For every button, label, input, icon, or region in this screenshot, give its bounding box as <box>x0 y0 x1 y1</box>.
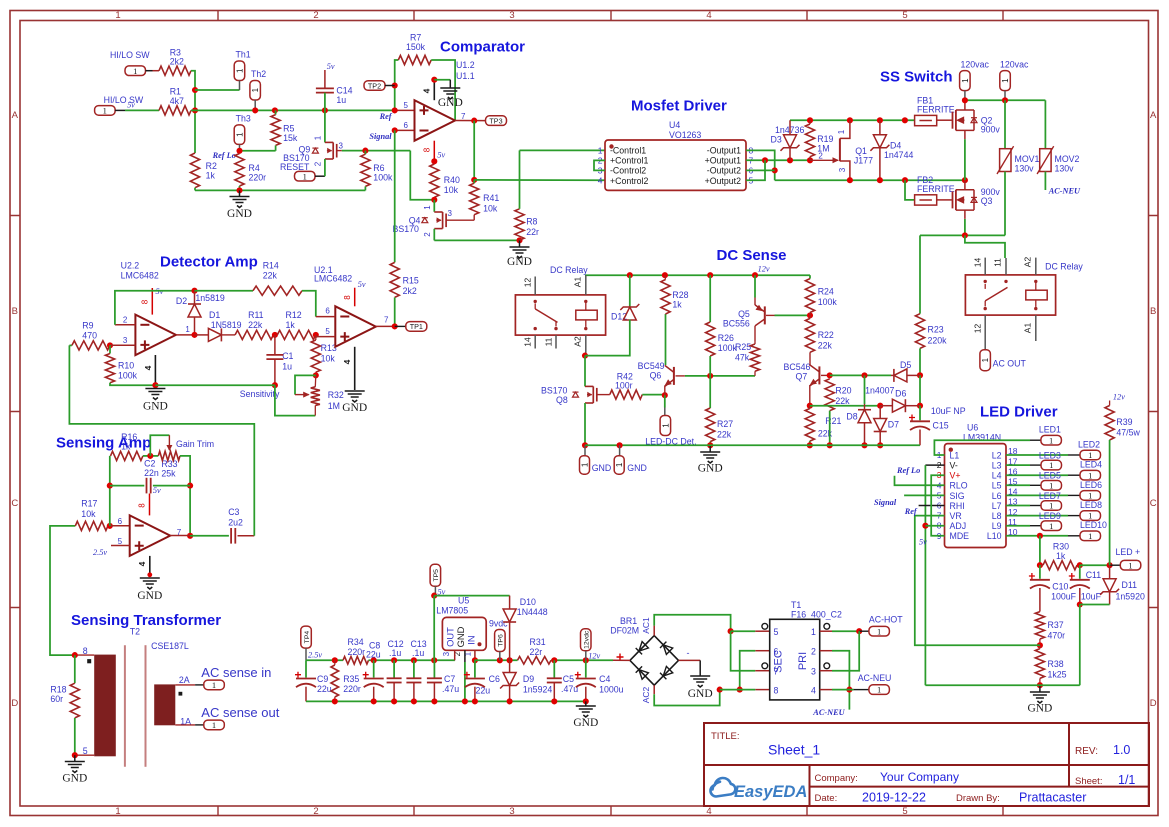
svg-text:3: 3 <box>339 142 344 151</box>
svg-text:1: 1 <box>661 423 670 428</box>
wire output TP3 <box>455 120 485 122</box>
svg-text:220k: 220k <box>928 336 948 346</box>
svg-text:R7: R7 <box>410 33 421 43</box>
svg-text:10uF NP: 10uF NP <box>931 406 966 416</box>
svg-text:12vdc: 12vdc <box>584 630 591 649</box>
svg-text:BR1: BR1 <box>620 616 637 626</box>
svg-text:R15: R15 <box>403 276 419 286</box>
testpoint TP5 <box>430 564 441 586</box>
port LED row 2 (near) <box>1006 464 1030 466</box>
svg-text:GND: GND <box>438 97 463 109</box>
svg-text:1: 1 <box>103 106 107 116</box>
svg-text:U1.2: U1.2 <box>456 60 475 70</box>
wire C11 bottom rail <box>925 684 1079 686</box>
svg-text:1u: 1u <box>282 362 292 372</box>
svg-text:14: 14 <box>973 258 983 268</box>
svg-text:TP6: TP6 <box>498 634 505 647</box>
wire supply ground rail <box>306 700 586 702</box>
svg-text:9vdc: 9vdc <box>489 619 508 629</box>
wire 12v rail <box>585 274 810 276</box>
svg-text:120vac: 120vac <box>961 60 990 70</box>
op-amp U3 pin4 ground <box>149 556 151 575</box>
svg-text:GND: GND <box>137 590 162 602</box>
svg-text:R37: R37 <box>1048 620 1064 630</box>
wire Q7 base rail right <box>830 374 891 376</box>
node R1/R3 <box>192 87 198 93</box>
svg-text:R28: R28 <box>672 290 688 300</box>
T2 core lines <box>124 645 126 767</box>
svg-text:2: 2 <box>811 647 816 657</box>
svg-text:7: 7 <box>774 667 779 677</box>
svg-text:220r: 220r <box>348 647 366 657</box>
wire U2.2 output node <box>176 334 195 336</box>
svg-text:1n5920: 1n5920 <box>1116 592 1145 602</box>
svg-text:SIG: SIG <box>950 491 965 501</box>
svg-text:REV:: REV: <box>1075 746 1098 757</box>
svg-text:1N4448: 1N4448 <box>517 607 548 617</box>
svg-text:GND: GND <box>698 463 723 475</box>
svg-text:1k: 1k <box>286 320 296 330</box>
svg-text:Ref Lo: Ref Lo <box>212 151 236 160</box>
svg-text:5v: 5v <box>153 486 161 495</box>
svg-text:A1: A1 <box>1023 323 1033 334</box>
svg-text:470: 470 <box>82 331 97 341</box>
svg-text:R8: R8 <box>526 217 537 227</box>
svg-text:V-: V- <box>950 461 958 471</box>
svg-text:3: 3 <box>448 209 453 218</box>
svg-text:Date:: Date: <box>815 793 838 804</box>
svg-text:R9: R9 <box>82 321 93 331</box>
port LED-DC Det <box>660 416 671 436</box>
svg-text:1: 1 <box>133 66 137 76</box>
U5 pin IN lead <box>474 650 476 660</box>
svg-text:R14: R14 <box>263 261 279 271</box>
svg-text:4: 4 <box>706 806 711 817</box>
svg-text:3: 3 <box>509 10 514 21</box>
svg-text:MOV1: MOV1 <box>1015 154 1040 164</box>
svg-text:Q5: Q5 <box>738 309 750 319</box>
wire R3 to node <box>191 71 195 153</box>
svg-text:AC1: AC1 <box>641 617 651 634</box>
svg-text:220r: 220r <box>249 173 267 183</box>
svg-text:8: 8 <box>138 503 147 508</box>
T2 primary winding <box>94 655 116 757</box>
svg-text:1000u: 1000u <box>599 685 624 695</box>
op-amp U2.1 pin4 ground <box>354 347 356 390</box>
svg-text:C10: C10 <box>1052 582 1068 592</box>
svg-text:+Output1: +Output1 <box>705 156 742 166</box>
svg-text:10k: 10k <box>483 204 498 214</box>
svg-text:GND: GND <box>592 463 612 473</box>
svg-text:Signal: Signal <box>369 132 392 141</box>
testpoint TP6 <box>495 630 506 652</box>
svg-text:1: 1 <box>1001 78 1010 83</box>
svg-text:D: D <box>11 698 18 709</box>
ground GND (R27) <box>709 445 711 452</box>
wire bridge - to GND <box>679 659 701 661</box>
svg-text:R25: R25 <box>735 342 751 352</box>
svg-text:100k: 100k <box>118 371 138 381</box>
svg-text:22k: 22k <box>263 271 278 281</box>
wire T1 pin7 <box>731 631 756 671</box>
svg-text:C15: C15 <box>933 421 949 431</box>
svg-text:2.5v: 2.5v <box>308 651 322 660</box>
svg-text:R26: R26 <box>718 333 734 343</box>
ground GND (R2/R4) <box>239 190 241 196</box>
svg-text:A2: A2 <box>1023 257 1033 268</box>
svg-text:1: 1 <box>1049 460 1053 470</box>
wire C3 up to detector <box>238 535 255 537</box>
svg-text:D8: D8 <box>846 412 857 422</box>
svg-text:Prattacaster: Prattacaster <box>1019 791 1086 805</box>
svg-text:AC-NEU: AC-NEU <box>812 708 845 717</box>
svg-text:4: 4 <box>598 176 603 186</box>
svg-text:R22: R22 <box>818 330 834 340</box>
wire Q8 source <box>584 403 586 445</box>
wire T1 pin1 AC-HOT <box>820 630 832 632</box>
svg-text:DC Sense: DC Sense <box>717 247 787 264</box>
svg-text:R35: R35 <box>343 674 359 684</box>
wire 120vac rail <box>965 99 1046 101</box>
wire Q3 source to rail2 <box>964 219 966 235</box>
svg-text:Mosfet Driver: Mosfet Driver <box>631 98 727 115</box>
svg-text:22k: 22k <box>717 430 732 440</box>
svg-text:U4: U4 <box>669 120 680 130</box>
svg-text:22r: 22r <box>526 227 539 237</box>
svg-text:4: 4 <box>422 88 432 93</box>
svg-text:2u2: 2u2 <box>228 518 243 528</box>
op-amp U2.2 pin8 5v <box>151 288 153 315</box>
svg-text:1: 1 <box>236 132 245 137</box>
EasyEDA logo <box>710 778 735 797</box>
svg-text:1: 1 <box>981 357 990 362</box>
svg-text:C2: C2 <box>144 459 155 469</box>
wire Q6 collector <box>665 314 667 365</box>
svg-text:1: 1 <box>1049 501 1053 511</box>
svg-text:4: 4 <box>706 10 711 21</box>
svg-text:IN: IN <box>466 635 477 644</box>
svg-text:L9: L9 <box>992 521 1002 531</box>
svg-text:AC-HOT: AC-HOT <box>869 615 903 625</box>
wire U6 VR divider <box>915 515 945 517</box>
svg-text:GND: GND <box>342 402 367 414</box>
svg-text:HI/LO SW: HI/LO SW <box>110 50 150 60</box>
svg-text:1: 1 <box>1088 531 1092 541</box>
wire ground rail <box>195 189 365 191</box>
port RESET <box>295 171 316 181</box>
svg-text:R19: R19 <box>817 134 833 144</box>
node R16/R33 <box>143 455 158 457</box>
svg-text:2: 2 <box>123 316 128 325</box>
svg-text:7: 7 <box>461 112 466 121</box>
svg-text:1: 1 <box>185 325 190 334</box>
wire gain trim loop <box>150 435 169 456</box>
svg-text:R4: R4 <box>249 163 260 173</box>
svg-text:C5: C5 <box>563 674 574 684</box>
svg-text:GND: GND <box>507 256 532 268</box>
svg-text:L5: L5 <box>992 481 1002 491</box>
svg-text:130v: 130v <box>1015 164 1035 174</box>
svg-text:22u: 22u <box>317 684 332 694</box>
wire U2.2 -in feedback <box>115 324 135 326</box>
svg-text:C1: C1 <box>282 351 293 361</box>
svg-text:A: A <box>1150 110 1157 121</box>
svg-text:12v: 12v <box>588 652 600 661</box>
svg-text:Gain Trim: Gain Trim <box>176 439 214 449</box>
svg-text:R2: R2 <box>206 161 217 171</box>
op-amp U3 sensing <box>110 525 130 527</box>
svg-text:100k: 100k <box>818 297 838 307</box>
svg-text:1: 1 <box>251 87 260 92</box>
wire T1 pin2 <box>820 650 832 652</box>
svg-text:AC2: AC2 <box>641 686 651 703</box>
svg-text:C: C <box>1150 498 1157 509</box>
svg-text:LED5: LED5 <box>1039 471 1061 481</box>
svg-text:-Output2: -Output2 <box>707 166 741 176</box>
svg-text:1n5924: 1n5924 <box>523 685 552 695</box>
svg-text:5: 5 <box>902 10 907 21</box>
svg-text:Q7: Q7 <box>796 372 808 382</box>
svg-text:FERRITE: FERRITE <box>917 184 955 194</box>
wire snubber bottom rail <box>775 179 965 181</box>
svg-text:R32: R32 <box>328 390 344 400</box>
svg-text:L3: L3 <box>992 461 1002 471</box>
svg-text:100r: 100r <box>615 381 633 391</box>
wire L10 to R30 <box>1037 533 1043 539</box>
svg-text:3: 3 <box>509 806 514 817</box>
svg-text:GND: GND <box>62 773 87 785</box>
svg-text:22n: 22n <box>144 468 159 478</box>
svg-text:A1: A1 <box>573 277 583 288</box>
svg-text:Ref Lo: Ref Lo <box>896 466 920 475</box>
svg-text:5: 5 <box>325 327 330 336</box>
svg-text:LED6: LED6 <box>1080 480 1102 490</box>
svg-text:12: 12 <box>973 324 983 334</box>
svg-text:2k2: 2k2 <box>403 286 417 296</box>
svg-text:1: 1 <box>961 78 970 83</box>
svg-text:3: 3 <box>442 651 451 656</box>
svg-text:R17: R17 <box>81 499 97 509</box>
port LED row 4 (near) <box>1006 484 1030 486</box>
svg-text:TP2: TP2 <box>368 81 381 90</box>
svg-text:2: 2 <box>313 806 318 817</box>
svg-text:1.0: 1.0 <box>1113 743 1130 757</box>
svg-text:D2: D2 <box>176 296 187 306</box>
svg-text:R41: R41 <box>483 193 499 203</box>
wire output to C3 <box>170 535 190 537</box>
svg-text:11: 11 <box>543 337 553 346</box>
svg-text:1: 1 <box>615 462 624 467</box>
svg-text:L6: L6 <box>992 491 1002 501</box>
testpoint TP4 <box>301 626 312 648</box>
wire R33 to output <box>180 456 190 536</box>
svg-text:R1: R1 <box>170 87 181 97</box>
svg-text:R39: R39 <box>1116 417 1132 427</box>
port LED row 6 (near) <box>1006 505 1030 507</box>
svg-text:U6: U6 <box>967 423 978 433</box>
wire R7 to output <box>431 60 455 121</box>
svg-text:TP5: TP5 <box>433 569 440 582</box>
svg-text:22k: 22k <box>248 320 263 330</box>
svg-text:1k: 1k <box>672 300 682 310</box>
wire R14 to U2.1 -in <box>302 291 316 317</box>
svg-text:100uF: 100uF <box>1051 592 1077 602</box>
svg-text:12v: 12v <box>758 265 770 274</box>
node C1 top <box>273 334 277 336</box>
svg-text:2: 2 <box>313 10 318 21</box>
svg-text:R33: R33 <box>161 459 177 469</box>
wire 5v to rail <box>433 596 435 661</box>
svg-text:1n4007: 1n4007 <box>865 386 894 396</box>
wire U4 pin1 <box>520 149 606 151</box>
svg-text:B: B <box>1150 306 1156 317</box>
svg-text:5v: 5v <box>127 101 135 110</box>
svg-text:BC549: BC549 <box>638 361 665 371</box>
port LED row 5 (far) <box>1006 494 1068 496</box>
svg-text:60r: 60r <box>50 694 63 704</box>
svg-text:1: 1 <box>314 135 323 140</box>
svg-text:+Control1: +Control1 <box>610 156 648 166</box>
svg-text:12: 12 <box>523 278 533 288</box>
wire Q7 base stub <box>821 374 830 376</box>
svg-text:1: 1 <box>1088 511 1092 521</box>
svg-text:ADJ: ADJ <box>950 521 967 531</box>
wire U4 pin2-pin3 loop <box>594 160 605 170</box>
wire +in 2.5v <box>111 545 130 547</box>
svg-text:1: 1 <box>1088 470 1092 480</box>
svg-text:LMC6482: LMC6482 <box>121 271 159 281</box>
svg-text:L2: L2 <box>992 450 1002 460</box>
svg-text:5v: 5v <box>437 151 445 160</box>
svg-text:1: 1 <box>303 171 307 181</box>
svg-text:5v: 5v <box>919 538 927 547</box>
svg-text:1: 1 <box>212 720 216 730</box>
wire 5v to D10 <box>434 595 509 597</box>
wire Th1 row <box>195 89 240 91</box>
svg-text:MDE: MDE <box>950 531 970 541</box>
svg-text:1u: 1u <box>336 95 346 105</box>
svg-text:T2: T2 <box>130 627 140 637</box>
svg-text:A: A <box>12 110 19 121</box>
wire U6 pin1 loop to LED1 <box>934 440 1030 455</box>
svg-text:22k: 22k <box>818 341 833 351</box>
wire input from T2 <box>50 526 75 655</box>
svg-text:C: C <box>11 498 18 509</box>
svg-text:LED2: LED2 <box>1078 440 1100 450</box>
svg-text:VO1263: VO1263 <box>669 130 701 140</box>
svg-text:BS170: BS170 <box>541 386 568 396</box>
svg-text:1: 1 <box>423 205 432 210</box>
svg-text:LED3: LED3 <box>1039 451 1061 461</box>
wire U6 RHI <box>919 505 945 507</box>
testpoint TP2 <box>364 81 385 91</box>
svg-text:T1: T1 <box>791 600 801 610</box>
wire Q4 source rail <box>433 229 435 241</box>
svg-text:1k25: 1k25 <box>1048 670 1067 680</box>
ground GND (C4) <box>585 701 587 706</box>
svg-text:220r: 220r <box>343 684 361 694</box>
svg-text:CSE187L: CSE187L <box>151 641 189 651</box>
svg-text:B: B <box>12 306 18 317</box>
svg-text:4: 4 <box>143 365 153 370</box>
svg-text:RHI: RHI <box>950 501 965 511</box>
U5 pin GND lead <box>464 650 466 662</box>
svg-text:25k: 25k <box>161 469 176 479</box>
svg-text:3: 3 <box>838 167 847 172</box>
svg-text:VR: VR <box>950 511 962 521</box>
svg-text:R27: R27 <box>717 419 733 429</box>
svg-text:LED +: LED + <box>1116 547 1141 557</box>
svg-text:C6: C6 <box>489 674 500 684</box>
svg-text:1: 1 <box>236 68 245 73</box>
svg-text:47/5w: 47/5w <box>1116 428 1140 438</box>
svg-text:22r: 22r <box>530 647 543 657</box>
svg-text:C3: C3 <box>228 507 239 517</box>
svg-text:Detector Amp: Detector Amp <box>160 254 258 271</box>
svg-text:DC Relay: DC Relay <box>1045 262 1083 272</box>
svg-text:C4: C4 <box>599 674 610 684</box>
wire Q5 base <box>766 314 775 316</box>
svg-text:+Control2: +Control2 <box>610 176 648 186</box>
svg-text:8: 8 <box>774 686 779 696</box>
svg-text:2: 2 <box>818 152 823 161</box>
svg-text:J177: J177 <box>854 156 873 166</box>
wire 12v rail (supply) <box>551 659 613 661</box>
svg-text:6: 6 <box>774 647 779 657</box>
wire snubber top rail <box>790 119 915 121</box>
svg-text:AC-NEU: AC-NEU <box>858 673 892 683</box>
svg-text:HI/LO SW: HI/LO SW <box>104 95 144 105</box>
svg-text:U5: U5 <box>458 596 469 606</box>
svg-text:LED7: LED7 <box>1039 491 1061 501</box>
svg-text:1: 1 <box>581 462 590 467</box>
wire U6 V- ADJ <box>925 464 944 466</box>
ground GND (T2) <box>74 755 76 761</box>
pin 8 5v U1 <box>433 141 435 162</box>
svg-text:10k: 10k <box>321 354 336 364</box>
svg-text:GND: GND <box>455 626 466 647</box>
svg-text:8: 8 <box>343 295 352 300</box>
svg-text:1M: 1M <box>328 401 340 411</box>
wire sense ground rail <box>585 444 920 446</box>
svg-text:R30: R30 <box>1053 542 1069 552</box>
svg-text:Sheet:: Sheet: <box>1075 776 1102 787</box>
svg-text:D7: D7 <box>888 420 899 430</box>
svg-text:22u: 22u <box>366 650 381 660</box>
wire sensitivity row <box>155 384 275 386</box>
svg-text:GND: GND <box>143 401 168 413</box>
wire R42 to Q6 <box>642 394 665 396</box>
svg-text:D10: D10 <box>520 597 536 607</box>
svg-text:2A: 2A <box>179 675 190 685</box>
svg-text:L1: L1 <box>950 450 960 460</box>
svg-text:2: 2 <box>314 161 323 166</box>
op-amp U2.1 pin8 5v <box>354 288 356 307</box>
svg-text:D9: D9 <box>523 674 534 684</box>
wire Q6 emitter to port <box>664 395 666 407</box>
wire U4 pin7/pin5 <box>746 159 810 161</box>
svg-text:R5: R5 <box>283 124 294 134</box>
svg-text:10uF: 10uF <box>1081 592 1102 602</box>
svg-text:47k: 47k <box>735 353 750 363</box>
wire T1 pin4 AC-NEU <box>820 689 832 691</box>
svg-text:15k: 15k <box>283 133 298 143</box>
svg-text:-: - <box>687 648 690 658</box>
svg-text:D5: D5 <box>900 360 911 370</box>
port LED row 8 (near) <box>1006 525 1030 527</box>
svg-text:.47u: .47u <box>561 684 578 694</box>
svg-text:R40: R40 <box>444 175 460 185</box>
